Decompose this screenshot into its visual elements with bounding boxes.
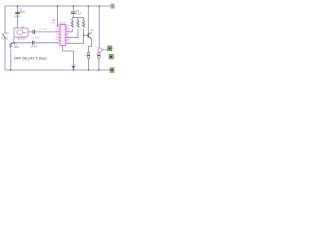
svg-text:GP4: GP4 (55, 28, 59, 30)
svg-text:PUSH: PUSH (1, 37, 8, 40)
wire R3 leads (67, 18, 78, 38)
switch S1 (1, 32, 9, 40)
svg-text:10uF: 10uF (76, 12, 82, 15)
svg-text:PIC: PIC (52, 22, 56, 24)
svg-text:RA3: RA3 (66, 35, 70, 38)
wire R1 vertical to ground rail (10, 43, 12, 70)
svg-text:RA1: RA1 (66, 30, 70, 33)
wire box bottom pin (13, 37, 15, 43)
svg-text:8: 8 (64, 26, 65, 28)
wire base tap (84, 34, 88, 36)
wire R4 leads (67, 18, 83, 44)
wire Q1 emitter to D3 (89, 39, 92, 52)
terminal T3 (110, 68, 114, 73)
transistor Q1 (88, 29, 94, 39)
junction dots (10, 5, 100, 71)
svg-text:RA2: RA2 (66, 33, 70, 36)
wire C2 branch upper (17, 6, 19, 12)
resistor R1 (10, 43, 20, 49)
svg-text:.047uF: .047uF (30, 45, 38, 48)
svg-text:C3 .047: C3 .047 (39, 29, 47, 31)
capacitor C1 (71, 10, 82, 15)
ground electrode C5 (72, 65, 77, 68)
svg-text:1: 1 (64, 35, 65, 37)
svg-text:12F629: 12F629 (57, 22, 66, 25)
wire IC vss to ground (63, 45, 74, 70)
wire relay lamp to terminal (102, 49, 107, 51)
svg-text:GP1: GP1 (55, 36, 59, 38)
resistor R2 (70, 20, 74, 28)
svg-text:RA5: RA5 (66, 41, 70, 44)
svg-text:2: 2 (64, 37, 65, 39)
svg-text:D1 4148: D1 4148 (31, 38, 40, 40)
svg-text:MOC30: MOC30 (17, 38, 26, 41)
wire VDD drop to IC pin1 (57, 6, 60, 26)
wire bottom rail (5, 69, 111, 71)
svg-text:GP0: GP0 (55, 39, 59, 41)
capacitor C3 (31, 29, 47, 40)
wire relay coil to ground (98, 58, 100, 70)
resistor R3 (76, 20, 80, 28)
opto-coupler U2 (14, 26, 28, 40)
wire left vertical lower (4, 38, 6, 70)
svg-text:5: 5 (60, 37, 61, 39)
svg-text:3: 3 (60, 32, 61, 34)
svg-text:2: 2 (60, 29, 61, 31)
wire lower left horizontal (11, 42, 32, 44)
wire resistor top bus (72, 17, 83, 19)
svg-text:GP2: GP2 (55, 34, 59, 36)
wire box output to C3 (28, 31, 32, 33)
capacitor C2 (14, 9, 25, 19)
svg-text:4: 4 (64, 43, 65, 45)
svg-text:7: 7 (60, 43, 61, 45)
relay coil (98, 53, 100, 58)
svg-text:100k: 100k (14, 46, 20, 49)
wire rail to relay lamp (98, 6, 100, 48)
wire C1 branch (72, 6, 74, 18)
wire C4 to IC pin7 (35, 42, 59, 44)
svg-text:GP3: GP3 (55, 31, 59, 33)
wire D3 to ground rail (88, 58, 90, 70)
wire R2 leads (67, 18, 72, 32)
svg-text:RA0: RA0 (66, 27, 70, 30)
relay lamp K1 (95, 47, 102, 52)
svg-text:0: 0 (64, 32, 65, 34)
svg-text:3: 3 (64, 40, 65, 42)
wire C3 to IC pin3 (35, 31, 59, 33)
wire top rail (5, 5, 112, 7)
svg-text:9: 9 (64, 29, 65, 31)
svg-text:OFF DELAY 1.0sec: OFF DELAY 1.0sec (14, 57, 47, 61)
capacitor C4 (30, 41, 38, 49)
resistor R4 (81, 20, 86, 28)
svg-text:RA4: RA4 (66, 38, 70, 41)
power flag top right (111, 4, 114, 8)
svg-text:1: 1 (60, 26, 61, 28)
wire rail to Q1 collector (87, 6, 89, 33)
terminal T2 (109, 54, 116, 59)
terminal T1 (108, 46, 115, 51)
svg-text:.01uF: .01uF (19, 11, 26, 14)
wire left vertical upper (4, 6, 6, 33)
svg-text:630V: 630V (14, 15, 20, 18)
svg-text:GND: GND (72, 65, 77, 67)
diode D3 (84, 52, 90, 58)
svg-text:6: 6 (60, 40, 61, 42)
svg-text:4: 4 (60, 35, 61, 37)
IC U1 (52, 20, 71, 45)
wire C2 branch lower (17, 14, 19, 28)
